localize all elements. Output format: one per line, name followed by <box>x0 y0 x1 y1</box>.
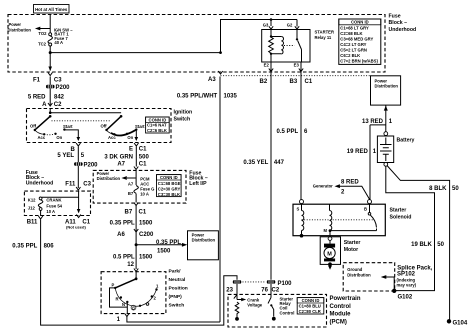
svg-text:Distribution: Distribution <box>347 272 371 277</box>
svg-text:Position: Position <box>169 286 188 292</box>
svg-text:CONN ID: CONN ID <box>160 175 178 180</box>
svg-text:G3: G3 <box>263 22 269 27</box>
svg-text:C1=68 BGE: C1=68 BGE <box>158 181 181 186</box>
svg-text:Generator: Generator <box>313 184 333 189</box>
svg-text:B: B <box>364 207 367 212</box>
svg-text:A: A <box>42 102 47 108</box>
svg-text:0.35 PPL: 0.35 PPL <box>156 240 181 246</box>
svg-text:Ground: Ground <box>347 267 363 272</box>
svg-text:40 A: 40 A <box>54 40 63 45</box>
svg-text:N: N <box>122 302 125 307</box>
svg-text:Off: Off <box>101 124 108 129</box>
svg-text:Fuse 54: Fuse 54 <box>46 204 62 209</box>
svg-text:TC2: TC2 <box>38 41 47 46</box>
svg-text:Block –: Block – <box>389 20 408 26</box>
svg-text:C1: C1 <box>139 147 147 153</box>
svg-text:Starter: Starter <box>390 208 407 214</box>
svg-text:C1: C1 <box>139 162 147 168</box>
svg-text:Voltage: Voltage <box>247 303 262 308</box>
svg-text:R: R <box>116 297 119 302</box>
svg-text:0.35 PPL: 0.35 PPL <box>12 243 37 249</box>
svg-text:8 RED: 8 RED <box>341 179 359 185</box>
svg-text:Switch: Switch <box>169 303 185 309</box>
svg-text:Off: Off <box>30 124 37 129</box>
svg-text:CONN ID: CONN ID <box>351 20 369 25</box>
svg-text:F1: F1 <box>33 78 41 84</box>
svg-text:Fuse: Fuse <box>389 13 401 19</box>
svg-text:G102: G102 <box>398 294 413 300</box>
svg-text:C2=68 BLK: C2=68 BLK <box>340 31 362 36</box>
svg-text:Neutral: Neutral <box>169 277 186 283</box>
svg-text:50: 50 <box>437 242 444 248</box>
svg-text:Control: Control <box>330 304 352 310</box>
svg-text:On: On <box>56 135 62 140</box>
svg-text:(indexing: (indexing <box>397 277 416 282</box>
svg-text:842: 842 <box>54 94 65 100</box>
svg-text:M: M <box>327 251 332 257</box>
svg-text:C1=68 LT GRY: C1=68 LT GRY <box>340 26 369 31</box>
svg-text:C3=68 MED GRY: C3=68 MED GRY <box>340 37 373 42</box>
svg-text:C1: C1 <box>139 210 147 216</box>
svg-text:0.5 PPL: 0.5 PPL <box>113 255 135 261</box>
svg-text:19 RED: 19 RED <box>347 149 369 155</box>
svg-text:Control: Control <box>280 310 295 315</box>
svg-text:B7: B7 <box>125 210 133 216</box>
svg-text:1500: 1500 <box>157 248 171 254</box>
svg-text:10 A: 10 A <box>140 191 149 196</box>
svg-text:CONN ID: CONN ID <box>149 117 167 122</box>
svg-text:may vary): may vary) <box>397 283 417 288</box>
svg-text:Powertrain: Powertrain <box>330 296 361 302</box>
svg-text:Start: Start <box>135 124 145 129</box>
svg-text:Acc: Acc <box>38 135 46 140</box>
svg-text:Distribution: Distribution <box>8 28 32 33</box>
svg-text:(Not used): (Not used) <box>66 224 86 229</box>
svg-text:C200: C200 <box>139 232 154 238</box>
svg-text:P200: P200 <box>84 162 99 168</box>
svg-text:C6=2 BLK: C6=2 BLK <box>340 53 360 58</box>
svg-text:C1=6 NAT: C1=6 NAT <box>147 123 167 128</box>
svg-text:1035: 1035 <box>224 94 238 100</box>
svg-text:Underhood: Underhood <box>26 181 54 187</box>
svg-text:1500: 1500 <box>139 221 153 227</box>
svg-text:Switch: Switch <box>174 116 191 122</box>
svg-text:Distribution: Distribution <box>375 84 399 89</box>
svg-text:J12: J12 <box>28 206 36 211</box>
svg-text:CRANK: CRANK <box>46 198 61 203</box>
svg-text:Left I/P: Left I/P <box>189 181 207 187</box>
svg-text:C2: C2 <box>54 102 62 108</box>
svg-text:10 A: 10 A <box>46 209 55 214</box>
svg-text:Solenoid: Solenoid <box>390 214 412 220</box>
svg-text:B11: B11 <box>27 220 38 226</box>
svg-text:Module: Module <box>330 312 352 318</box>
svg-text:A7: A7 <box>128 181 134 186</box>
svg-text:Ignition: Ignition <box>174 110 193 116</box>
svg-text:13 RED: 13 RED <box>362 119 384 125</box>
svg-text:19 BLK: 19 BLK <box>411 242 432 248</box>
svg-text:C5=2 LT GRN: C5=2 LT GRN <box>340 48 367 53</box>
svg-text:500: 500 <box>139 154 150 160</box>
svg-text:C1=80 BLU: C1=80 BLU <box>299 304 321 309</box>
svg-text:8 BLK: 8 BLK <box>429 186 447 192</box>
svg-text:B2: B2 <box>260 79 268 85</box>
svg-text:On: On <box>127 135 133 140</box>
svg-text:A3: A3 <box>208 77 216 83</box>
svg-text:1500: 1500 <box>139 255 153 261</box>
svg-text:E: E <box>129 147 133 153</box>
svg-text:0.35 PPL/WHT: 0.35 PPL/WHT <box>177 94 218 100</box>
svg-text:C2=30 GRY: C2=30 GRY <box>158 186 181 191</box>
svg-text:Starter: Starter <box>344 240 361 246</box>
svg-text:F11: F11 <box>65 182 76 188</box>
svg-text:(PCM): (PCM) <box>330 319 347 325</box>
svg-text:447: 447 <box>274 160 285 166</box>
svg-text:C3: C3 <box>54 78 62 84</box>
svg-text:TO2: TO2 <box>38 31 47 36</box>
svg-text:Power: Power <box>9 22 22 27</box>
svg-text:P200: P200 <box>56 85 71 91</box>
svg-text:12: 12 <box>127 262 134 268</box>
svg-text:Hot at All Times: Hot at All Times <box>35 7 68 12</box>
svg-text:P100: P100 <box>278 281 293 287</box>
svg-text:0.35 YEL: 0.35 YEL <box>243 160 268 166</box>
svg-text:STARTER: STARTER <box>315 30 334 35</box>
svg-text:G104: G104 <box>453 321 468 327</box>
svg-text:5 YEL: 5 YEL <box>57 153 74 159</box>
svg-text:Park/: Park/ <box>169 268 182 274</box>
svg-text:Relay 11: Relay 11 <box>315 35 332 40</box>
svg-text:A6: A6 <box>117 232 125 238</box>
svg-text:C7=2 BRN (w/ABS): C7=2 BRN (w/ABS) <box>340 59 378 64</box>
svg-text:(PNP): (PNP) <box>169 294 183 300</box>
svg-text:A7: A7 <box>117 162 125 168</box>
svg-text:Start: Start <box>63 124 73 129</box>
svg-text:Battery: Battery <box>397 138 415 144</box>
svg-text:5 RED: 5 RED <box>28 94 46 100</box>
svg-text:C4=2 LT GRY: C4=2 LT GRY <box>340 42 366 47</box>
svg-text:Underhood: Underhood <box>389 27 417 33</box>
svg-text:3 DK GRN: 3 DK GRN <box>104 154 133 160</box>
svg-text:B7: B7 <box>128 191 134 196</box>
svg-text:C2=6 BLK: C2=6 BLK <box>147 128 167 133</box>
svg-text:P: P <box>112 282 115 287</box>
svg-text:K12: K12 <box>28 198 36 203</box>
svg-text:Distribution: Distribution <box>97 176 121 181</box>
svg-text:D: D <box>132 306 135 310</box>
svg-text:B3: B3 <box>290 79 298 85</box>
svg-text:C3: C3 <box>83 182 91 188</box>
svg-text:806: 806 <box>44 243 55 249</box>
svg-text:C2=80 CLR: C2=80 CLR <box>299 309 321 314</box>
svg-text:M: M <box>324 228 328 233</box>
svg-text:Motor: Motor <box>344 247 358 253</box>
svg-text:G2: G2 <box>287 22 293 27</box>
svg-text:0.5 PPL: 0.5 PPL <box>277 129 299 135</box>
svg-text:0.35 PPL: 0.35 PPL <box>110 221 135 227</box>
svg-text:CONN ID: CONN ID <box>302 298 320 303</box>
svg-text:C1: C1 <box>305 79 313 85</box>
svg-text:E3: E3 <box>294 63 300 68</box>
svg-text:E2: E2 <box>264 63 270 68</box>
svg-text:C3=30 BLK: C3=30 BLK <box>158 192 180 197</box>
svg-text:Acc: Acc <box>108 135 116 140</box>
svg-text:50: 50 <box>452 186 459 192</box>
svg-text:S: S <box>297 207 300 212</box>
svg-text:23: 23 <box>226 287 233 293</box>
svg-text:C2: C2 <box>272 287 280 293</box>
svg-text:Distribution: Distribution <box>192 238 216 243</box>
svg-text:76: 76 <box>261 287 268 293</box>
